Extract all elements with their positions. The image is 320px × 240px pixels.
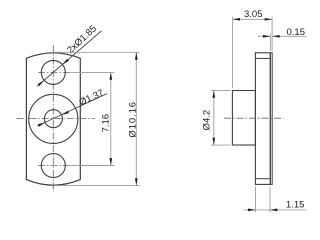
- dimension line 7.16: [110, 72, 112, 165]
- svg-text:7.16: 7.16: [100, 114, 111, 133]
- extension line boss top (D4.2): [211, 89, 231, 91]
- arrow 0.15 left: [263, 35, 270, 38]
- horizontal centerline top hole: [38, 71, 70, 73]
- horizontal centerline middle circle: [17, 117, 96, 119]
- bottom hole circle 1.85: [41, 154, 65, 178]
- arrow 3.05 left: [233, 18, 240, 21]
- dimension line 0.15 with shelf: [258, 35, 270, 37]
- side view lip rectangle: [270, 53, 272, 185]
- arrow D10.16 bottom: [135, 178, 138, 185]
- arrow D4.2 bottom: [212, 138, 215, 145]
- arrow upper-right D1.37: [62, 111, 69, 115]
- vertical centerline front view: [52, 45, 54, 192]
- side view flange rectangle: [255, 53, 270, 185]
- top hole circle 1.85: [41, 60, 65, 84]
- middle boss circle: [29, 94, 78, 143]
- dimension line D4.2: [213, 90, 215, 145]
- extension line lip right (3.05/0.15): [271, 17, 273, 51]
- extension line flange right (1.15): [269, 186, 271, 212]
- arrow 0.15 right: [272, 35, 279, 38]
- svg-text:3.05: 3.05: [244, 9, 263, 20]
- middle inner hole circle 1.37: [44, 110, 62, 128]
- arrow upper-right 2xD1.85: [62, 59, 69, 65]
- svg-text:0.15: 0.15: [287, 27, 306, 38]
- horizontal centerline bottom hole: [38, 165, 70, 167]
- arrow 7.16 bottom: [109, 158, 112, 165]
- extension line part bottom (D10.16): [55, 185, 140, 187]
- arrow 1.15 right: [270, 209, 277, 212]
- extension line top hole (7.16): [71, 71, 115, 73]
- dimension line 1.15 with shelf: [244, 209, 270, 211]
- arrow D10.16 top: [135, 52, 138, 59]
- side view flat corner line bottom: [255, 178, 270, 180]
- svg-text:Ø10.16: Ø10.16: [128, 101, 139, 138]
- arrow lower-left 2xD1.85: [38, 80, 45, 86]
- arrow D4.2 top: [212, 90, 215, 97]
- extension line flange left (1.15): [255, 186, 257, 212]
- dimension line 3.05: [233, 18, 273, 20]
- leader line 2xD1.85: [37, 31, 102, 86]
- leader line D1.37: [37, 94, 107, 126]
- svg-text:1.15: 1.15: [286, 200, 305, 211]
- dimension line D10.16: [135, 52, 137, 185]
- arrow 3.05 right: [265, 18, 272, 21]
- arrow 1.15 left: [248, 209, 255, 212]
- extension line boss bottom (D4.2): [211, 144, 231, 146]
- extension line part top (D10.16): [55, 51, 140, 53]
- extension line flange right face (0.15): [269, 34, 271, 51]
- side view flat corner line top: [255, 57, 270, 59]
- side view boss rectangle: [232, 91, 255, 146]
- svg-text:Ø4.2: Ø4.2: [202, 110, 213, 131]
- side view horizontal centerline: [224, 117, 284, 119]
- arrow lower-left D1.37: [38, 122, 45, 126]
- arrow 7.16 top: [109, 72, 112, 79]
- extension line boss left (3.05): [232, 17, 234, 89]
- extension line bottom hole (7.16): [71, 165, 115, 167]
- front view outline: [26, 53, 80, 185]
